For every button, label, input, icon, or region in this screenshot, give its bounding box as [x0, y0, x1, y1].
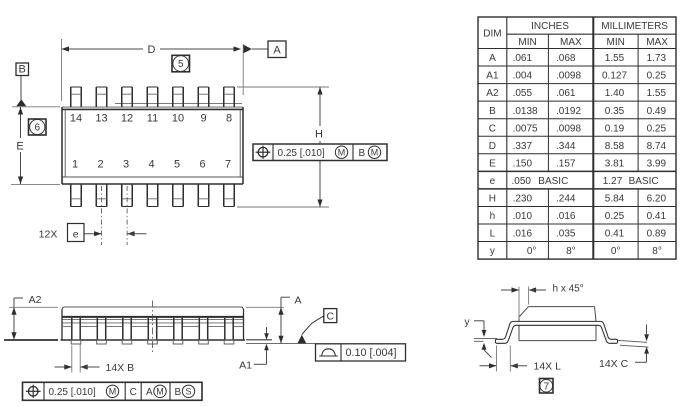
- svg-text:.337: .337: [513, 141, 533, 152]
- svg-text:M: M: [109, 387, 117, 397]
- svg-text:A2: A2: [29, 294, 42, 306]
- svg-text:0°: 0°: [527, 246, 537, 257]
- svg-text:.050: .050: [512, 176, 532, 187]
- pin 8 (top row): [223, 87, 225, 107]
- svg-text:.150: .150: [513, 158, 533, 169]
- svg-text:5: 5: [174, 158, 180, 170]
- dimension 14X C: [618, 340, 647, 342]
- svg-text:8°: 8°: [566, 246, 576, 257]
- svg-text:0.19: 0.19: [605, 123, 625, 134]
- datum C: [298, 335, 307, 344]
- svg-text:.035: .035: [556, 229, 576, 240]
- svg-text:8: 8: [226, 113, 232, 125]
- svg-text:B: B: [19, 64, 26, 76]
- seating plane flag 0.10 [.004]: [316, 344, 406, 361]
- svg-text:14: 14: [70, 113, 82, 125]
- end view body: [529, 306, 595, 308]
- svg-text:.230: .230: [513, 194, 533, 205]
- dimension H: [237, 86, 329, 88]
- svg-text:14X B: 14X B: [106, 362, 135, 374]
- svg-text:D: D: [489, 141, 496, 152]
- dimension D: [61, 39, 63, 101]
- svg-text:1.55: 1.55: [605, 53, 625, 64]
- svg-text:1.55: 1.55: [647, 88, 667, 99]
- svg-text:7: 7: [543, 381, 549, 392]
- svg-text:A: A: [489, 53, 496, 64]
- svg-text:M: M: [338, 148, 346, 158]
- svg-text:6: 6: [34, 123, 40, 134]
- pin 13 (top row): [95, 87, 97, 107]
- svg-text:e: e: [490, 176, 496, 187]
- svg-text:8.58: 8.58: [605, 141, 625, 152]
- dimension A2: [9, 306, 58, 308]
- svg-text:B: B: [359, 148, 366, 159]
- svg-text:.061: .061: [556, 88, 576, 99]
- svg-text:0.10 [.004]: 0.10 [.004]: [346, 347, 397, 359]
- dimension 14X L: [496, 346, 498, 372]
- svg-text:MILLIMETERS: MILLIMETERS: [601, 21, 668, 32]
- svg-text:A: A: [273, 45, 281, 57]
- pin 4 (bottom row): [146, 184, 148, 207]
- svg-text:.0138: .0138: [513, 106, 538, 117]
- lead 6 side view: [198, 318, 200, 340]
- svg-text:0.35: 0.35: [605, 106, 625, 117]
- svg-text:8.74: 8.74: [647, 141, 667, 152]
- svg-text:10: 10: [172, 113, 184, 125]
- svg-text:BASIC: BASIC: [629, 176, 659, 187]
- svg-text:y: y: [490, 246, 495, 257]
- svg-text:4: 4: [148, 158, 154, 170]
- pin 1 (bottom row): [70, 184, 72, 207]
- svg-text:13: 13: [95, 113, 107, 125]
- svg-text:6.20: 6.20: [647, 194, 667, 205]
- pin 14 (top row): [70, 87, 72, 107]
- dimension h x 45deg: [518, 287, 520, 319]
- svg-text:2: 2: [97, 158, 103, 170]
- svg-text:y: y: [464, 316, 470, 328]
- svg-text:14X C: 14X C: [599, 358, 629, 370]
- svg-text:C: C: [489, 123, 496, 134]
- pin 3 (bottom row): [121, 184, 123, 207]
- mold line across top pins: [115, 103, 242, 105]
- lead 2 side view: [96, 318, 98, 340]
- dimension e (pitch): [101, 186, 103, 245]
- svg-text:1.27: 1.27: [603, 176, 623, 187]
- svg-text:3.99: 3.99: [647, 158, 667, 169]
- svg-text:12: 12: [121, 113, 133, 125]
- svg-text:L: L: [490, 229, 496, 240]
- svg-text:0.127: 0.127: [602, 71, 627, 82]
- svg-text:.061: .061: [513, 53, 533, 64]
- svg-text:.055: .055: [513, 88, 533, 99]
- svg-text:.068: .068: [556, 53, 576, 64]
- svg-text:6: 6: [199, 158, 205, 170]
- svg-text:0.25 [.010]: 0.25 [.010]: [278, 148, 325, 159]
- pin 9 (top row): [197, 87, 199, 107]
- pin 11 (top row): [146, 87, 148, 107]
- svg-text:h x 45°: h x 45°: [553, 284, 584, 295]
- svg-text:A1: A1: [239, 359, 252, 371]
- svg-text:11: 11: [147, 113, 158, 125]
- pin 5 (bottom row): [172, 184, 174, 207]
- dimension table: [478, 17, 676, 259]
- svg-text:.244: .244: [556, 194, 576, 205]
- svg-text:.016: .016: [556, 211, 576, 222]
- svg-text:12X: 12X: [39, 229, 58, 241]
- pin 12 (top row): [121, 87, 123, 107]
- svg-text:0.25: 0.25: [605, 211, 625, 222]
- svg-text:.0098: .0098: [556, 123, 581, 134]
- svg-text:C: C: [130, 387, 137, 398]
- dimension A: [246, 306, 284, 308]
- svg-text:0.49: 0.49: [647, 106, 667, 117]
- svg-text:M: M: [156, 387, 164, 397]
- svg-text:14X L: 14X L: [534, 361, 562, 373]
- svg-text:5: 5: [178, 59, 184, 70]
- svg-text:.016: .016: [513, 229, 533, 240]
- pin 2 (bottom row): [95, 184, 97, 207]
- note flag 6: [29, 119, 47, 135]
- lead 5 side view: [173, 318, 175, 340]
- svg-text:7: 7: [225, 158, 231, 170]
- pin 10 (top row): [172, 87, 174, 107]
- svg-text:MIN: MIN: [607, 37, 625, 48]
- svg-text:MAX: MAX: [560, 37, 582, 48]
- svg-text:5.84: 5.84: [605, 194, 625, 205]
- svg-text:8°: 8°: [652, 246, 662, 257]
- center line side view: [152, 301, 154, 353]
- svg-text:0.25: 0.25: [647, 123, 667, 134]
- svg-text:0.25 [.010]: 0.25 [.010]: [49, 387, 96, 398]
- svg-text:1.73: 1.73: [647, 53, 667, 64]
- body lower edge between leads: [62, 326, 71, 328]
- package body top view: [62, 106, 243, 108]
- svg-text:0.25: 0.25: [647, 71, 667, 82]
- svg-text:0.89: 0.89: [647, 229, 667, 240]
- lead 3 side view: [122, 318, 124, 340]
- svg-text:E: E: [489, 158, 496, 169]
- svg-text:h: h: [490, 211, 496, 222]
- svg-text:.004: .004: [513, 71, 533, 82]
- svg-text:INCHES: INCHES: [531, 21, 569, 32]
- svg-text:H: H: [489, 194, 496, 205]
- svg-text:A: A: [146, 387, 153, 398]
- feature control frame (top): position 0.25 [.010] M | B M: [253, 144, 387, 161]
- svg-text:3: 3: [123, 158, 129, 170]
- lead 7 side view: [224, 318, 226, 340]
- svg-text:D: D: [148, 44, 156, 56]
- pin 7 (bottom row): [223, 184, 225, 207]
- svg-text:.0075: .0075: [513, 123, 538, 134]
- svg-text:MIN: MIN: [518, 37, 536, 48]
- svg-text:0.41: 0.41: [647, 211, 667, 222]
- svg-text:C: C: [327, 310, 335, 322]
- svg-text:E: E: [16, 141, 23, 153]
- side view package body: [64, 306, 243, 308]
- datum B: [16, 63, 29, 76]
- end view gull-wing lead: [495, 321, 617, 343]
- svg-text:A1: A1: [486, 71, 499, 82]
- svg-text:.0098: .0098: [556, 71, 581, 82]
- svg-text:DIM: DIM: [483, 29, 501, 40]
- svg-text:.010: .010: [513, 211, 533, 222]
- svg-text:0°: 0°: [611, 246, 621, 257]
- svg-text:1: 1: [72, 158, 78, 170]
- svg-text:MAX: MAX: [646, 37, 668, 48]
- svg-text:S: S: [185, 387, 191, 397]
- svg-text:H: H: [315, 129, 323, 141]
- note flag 5: [172, 55, 190, 72]
- svg-text:M: M: [371, 148, 379, 158]
- svg-text:.344: .344: [556, 141, 576, 152]
- svg-text:BASIC: BASIC: [538, 176, 568, 187]
- seating plane line: [246, 343, 316, 345]
- dimension A1: [246, 339, 272, 341]
- note flag 7: [540, 379, 554, 394]
- svg-text:.157: .157: [556, 158, 576, 169]
- svg-text:0.41: 0.41: [605, 229, 625, 240]
- lead 4 side view: [147, 318, 149, 340]
- svg-text:e: e: [73, 229, 79, 241]
- svg-text:A: A: [294, 294, 301, 306]
- svg-text:.0192: .0192: [556, 106, 581, 117]
- svg-text:3.81: 3.81: [605, 158, 625, 169]
- svg-text:B: B: [489, 106, 496, 117]
- pin 6 (bottom row): [197, 184, 199, 207]
- svg-text:9: 9: [200, 113, 206, 125]
- svg-text:A2: A2: [486, 88, 499, 99]
- feature control frame (bottom): position 0.25 [.010] M | C | A M | B S: [23, 382, 203, 400]
- datum A: [244, 45, 252, 54]
- lead 1 side view: [71, 318, 73, 340]
- dimension E: [12, 106, 60, 108]
- svg-text:1.40: 1.40: [605, 88, 625, 99]
- svg-text:B: B: [175, 387, 182, 398]
- dimension 14X B: [71, 346, 73, 373]
